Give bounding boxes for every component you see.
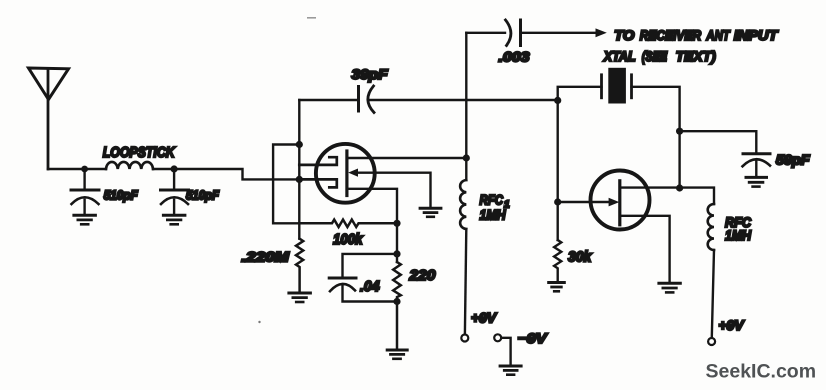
svg-text:+9V: +9V [471, 310, 498, 326]
wire antenna to loopstick [48, 168, 106, 170]
svg-text:TEXT): TEXT) [676, 48, 716, 64]
wire loopstick to gate (with jog) [153, 169, 299, 179]
svg-text:.04: .04 [360, 278, 380, 295]
svg-text:39pF: 39pF [352, 67, 389, 82]
node junction dot A2 [171, 165, 178, 172]
svg-text:.220M: .220M [242, 249, 290, 264]
ground under 30k [549, 283, 565, 292]
crystal XTAL [602, 68, 632, 104]
svg-text:ANT: ANT [706, 27, 731, 43]
capacitor 39pF [359, 86, 375, 113]
ground under Q2 source [659, 283, 680, 292]
wire to 39pF cap [299, 99, 358, 101]
inductor LOOPSTICK [106, 162, 153, 169]
ground under C1 [74, 215, 96, 224]
svg-text:220: 220 [408, 267, 436, 284]
node junction dot source/100k [393, 220, 400, 227]
wire to 59pF [680, 131, 757, 154]
wire xtal left lead [558, 87, 602, 101]
capacitor 59pF [743, 154, 771, 177]
node junction dot drain [463, 154, 470, 161]
capacitor C1 510pF [71, 169, 99, 215]
resistor .220M [296, 239, 303, 292]
node junction dot G-mid [296, 176, 303, 183]
resistor 30k [554, 240, 561, 281]
wire Q1 source down [347, 189, 397, 262]
node junction dot A1 [81, 166, 88, 173]
node junction dot Q2 gate [554, 198, 561, 205]
svg-text:+9V: +9V [719, 317, 746, 333]
wire Q1 drain to node [347, 157, 466, 159]
inductor RFC 1MH right [708, 204, 714, 250]
transistor Q1 dual-gate MOSFET [299, 144, 374, 203]
svg-text:SeekIC.com: SeekIC.com [706, 361, 817, 383]
terminal +9V right [708, 338, 715, 345]
node junction dot 59pF [676, 128, 683, 135]
ground under -9V [500, 366, 521, 375]
ground under Q1 substrate [420, 208, 441, 217]
wire xtal right lead [632, 87, 680, 188]
svg-text:1MH: 1MH [725, 227, 752, 243]
wire gate bus vertical [298, 145, 300, 239]
ground under .220M [289, 293, 311, 302]
wire gate bus Q2 [557, 100, 559, 240]
ground under C2 [163, 215, 185, 224]
svg-text:510pF: 510pF [104, 188, 139, 203]
wire Q2 source to ground [620, 216, 670, 282]
capacitor .04 branch [329, 254, 397, 302]
resistor 220 [393, 262, 401, 349]
wire left feedback bracket [273, 145, 299, 224]
node junction dot .04 bottom [393, 298, 400, 305]
svg-text:59pF: 59pF [776, 153, 810, 168]
wire drain node riser [465, 33, 467, 180]
node junction dot G-top [296, 141, 303, 148]
svg-text:510pF: 510pF [186, 188, 220, 203]
svg-text:LOOPSTICK: LOOPSTICK [103, 144, 176, 161]
svg-text:TO: TO [614, 27, 634, 43]
svg-text:XTAL: XTAL [603, 48, 636, 64]
stray speck (scan artifact) [258, 321, 260, 323]
wire RFC to +9V terminal right [712, 250, 714, 337]
svg-text:INPUT: INPUT [734, 27, 779, 43]
node junction dot xtal-left [554, 97, 561, 104]
capacitor C2 510pF [161, 169, 189, 215]
wire Q1 substrate to ground [356, 173, 431, 208]
capacitor .003 [506, 20, 521, 46]
svg-text:1MH: 1MH [480, 207, 507, 223]
wire .003 to arrow [521, 32, 598, 34]
wire 39pF to crystal node [368, 99, 558, 101]
svg-text:−9V: −9V [518, 330, 549, 346]
ground under 220 [387, 350, 407, 359]
node junction dot Q2 drain [676, 184, 683, 191]
antenna [29, 68, 69, 169]
stray mark (scan artifact) [307, 17, 316, 19]
svg-text:30k: 30k [568, 249, 592, 266]
terminal +9V left [461, 335, 468, 342]
wire 39pF riser [298, 100, 300, 145]
ground under 59pF [746, 177, 767, 186]
terminal -9V [494, 334, 501, 341]
wire -9V to ground [501, 338, 510, 365]
svg-text:.003: .003 [499, 49, 530, 65]
transistor Q2 JFET [558, 171, 650, 230]
resistor 100k [299, 220, 397, 227]
inductor RFC1 1MH [460, 180, 466, 229]
wire Q2 drain [620, 188, 714, 204]
wire RFC1 to +9V terminal [465, 229, 466, 334]
svg-text:RFC: RFC [480, 192, 504, 208]
arrowhead to receiver [596, 28, 607, 37]
svg-text:RECEIVER: RECEIVER [640, 27, 702, 43]
svg-text:100k: 100k [333, 231, 363, 248]
svg-text:(SEE: (SEE [642, 48, 668, 64]
wire top corner to .003 [466, 32, 505, 34]
node junction dot .04 top [393, 250, 400, 257]
